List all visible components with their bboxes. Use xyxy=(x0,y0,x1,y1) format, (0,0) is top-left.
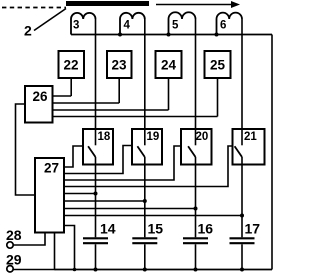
junction dot cap14/bus xyxy=(94,268,98,272)
svg-text:25: 25 xyxy=(210,58,226,73)
wire box27 line6 to node cap15 xyxy=(64,200,145,202)
switch box 20 xyxy=(181,129,212,165)
wire box26 to box27 xyxy=(16,104,36,195)
svg-text:21: 21 xyxy=(244,131,257,143)
label 2 leader line xyxy=(34,9,66,31)
wire box26 to box24 xyxy=(53,109,169,111)
capacitor 15 xyxy=(132,238,157,269)
junction dot wire74/bus xyxy=(73,268,77,272)
wire switch18 to capacitor 14 xyxy=(95,165,97,238)
capacitor 16 xyxy=(183,238,208,269)
wire coil3 down to switch 18 xyxy=(95,19,97,129)
wire coil5 down to switch 20 xyxy=(195,19,197,129)
wire box24 to node line3 xyxy=(168,78,170,110)
svg-text:15: 15 xyxy=(148,221,164,237)
terminal 28 xyxy=(7,242,13,248)
svg-text:5: 5 xyxy=(172,20,179,32)
wire box27 pin to terminal 28 xyxy=(13,233,45,246)
box 25 xyxy=(205,51,231,78)
svg-text:2: 2 xyxy=(24,23,32,39)
junction dot coil5/bus xyxy=(167,33,171,37)
wire box26 to box23 xyxy=(53,102,120,104)
svg-text:22: 22 xyxy=(64,58,79,73)
junction dot cap16/bus xyxy=(194,268,198,272)
bottom bus wire xyxy=(55,269,273,271)
wire box27 pin to terminal 29 / bottom bus xyxy=(13,233,54,270)
wire box25 to node line4 xyxy=(217,78,219,117)
junction dot line6/cap15 xyxy=(143,199,147,203)
wire box22 to node line1 xyxy=(70,78,72,96)
box 23 xyxy=(107,51,132,78)
box 24 xyxy=(156,51,182,78)
wire box27 line3 to switch20 left xyxy=(64,146,181,180)
svg-text:28: 28 xyxy=(6,227,22,243)
dashed line (left of bar 2) xyxy=(2,7,66,9)
junction dot line5/cap14 xyxy=(94,192,98,196)
junction dot line7/cap16 xyxy=(194,207,198,211)
capacitor 14 xyxy=(83,238,108,269)
wire box27 line7 to node cap16 xyxy=(64,208,196,210)
wire box27 line2 to switch19 left xyxy=(64,146,132,174)
switch box 18 xyxy=(83,129,113,165)
svg-text:23: 23 xyxy=(112,58,128,73)
coil 5 xyxy=(169,12,196,34)
svg-text:16: 16 xyxy=(198,221,214,237)
wire box27 line1 to switch18 left xyxy=(64,146,83,167)
coil 4 xyxy=(120,13,145,35)
wire bus right edge drop xyxy=(271,35,273,270)
wire box27 line5 to node cap14 xyxy=(64,193,96,195)
switch 21 contact and blade xyxy=(235,129,242,165)
switch 19 contact and blade xyxy=(137,129,144,165)
bar 2 (thick strip) xyxy=(66,1,149,6)
svg-text:20: 20 xyxy=(196,131,209,143)
junction dot line8/cap17 xyxy=(240,214,244,218)
coil 6 xyxy=(217,13,243,35)
svg-text:14: 14 xyxy=(100,221,116,237)
switch box 21 xyxy=(233,129,265,165)
wire box26 to box22 xyxy=(53,95,72,97)
svg-text:27: 27 xyxy=(44,161,59,176)
capacitor 17 xyxy=(230,238,255,269)
top bus wire xyxy=(71,34,272,36)
wire coil4 down to switch 19 xyxy=(144,19,146,129)
box 22 xyxy=(59,51,85,78)
wire switch19 to capacitor 15 xyxy=(144,165,146,238)
svg-text:3: 3 xyxy=(73,20,79,32)
svg-text:17: 17 xyxy=(245,221,261,237)
wire box27 corner to bottom bus xyxy=(64,226,75,270)
junction dot cap17/bus xyxy=(240,268,244,272)
wire box26 to box25 xyxy=(53,116,218,118)
wire box27 line8 to node cap17 xyxy=(64,215,242,217)
wire switch20 to capacitor 16 xyxy=(195,165,197,238)
svg-text:24: 24 xyxy=(161,58,177,73)
box 27 xyxy=(35,158,64,233)
junction dot coil6/bus xyxy=(215,33,219,37)
arrow (direction of motion) xyxy=(156,1,240,8)
box 26 xyxy=(25,86,53,123)
wire coil6 down to switch 21 xyxy=(241,19,243,129)
switch box 19 xyxy=(132,129,162,165)
svg-text:4: 4 xyxy=(124,20,131,32)
svg-text:6: 6 xyxy=(220,20,226,32)
switch 20 contact and blade xyxy=(188,129,195,165)
coil 3 xyxy=(71,13,96,35)
junction dot cap15/bus xyxy=(143,268,147,272)
svg-text:18: 18 xyxy=(98,131,111,143)
terminal 29 xyxy=(7,266,13,272)
junction dot coil4/bus xyxy=(118,33,122,37)
svg-text:26: 26 xyxy=(33,89,49,104)
wire switch21 to capacitor 17 xyxy=(241,165,243,238)
wire box23 to node line2 xyxy=(118,78,120,103)
svg-text:19: 19 xyxy=(147,131,160,143)
switch 18 contact and blade xyxy=(88,129,95,165)
wire box27 line4 to switch21 left xyxy=(64,146,233,187)
svg-text:29: 29 xyxy=(6,252,22,268)
